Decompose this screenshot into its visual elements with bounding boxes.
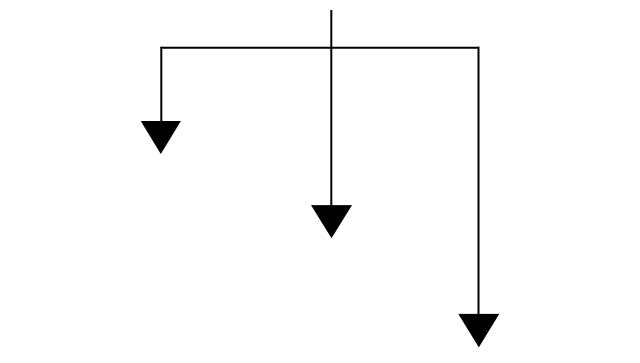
wire: horizontal branch bar bbox=[160, 47, 479, 49]
wire: left vertical drop bbox=[160, 47, 162, 122]
wire: vertical stem from top down to center arrowhead bbox=[330, 10, 332, 206]
arrowhead: center bbox=[311, 205, 352, 238]
arrowhead: right bbox=[458, 314, 499, 348]
wire: right vertical drop bbox=[478, 47, 480, 315]
arrowhead: left bbox=[141, 121, 181, 154]
